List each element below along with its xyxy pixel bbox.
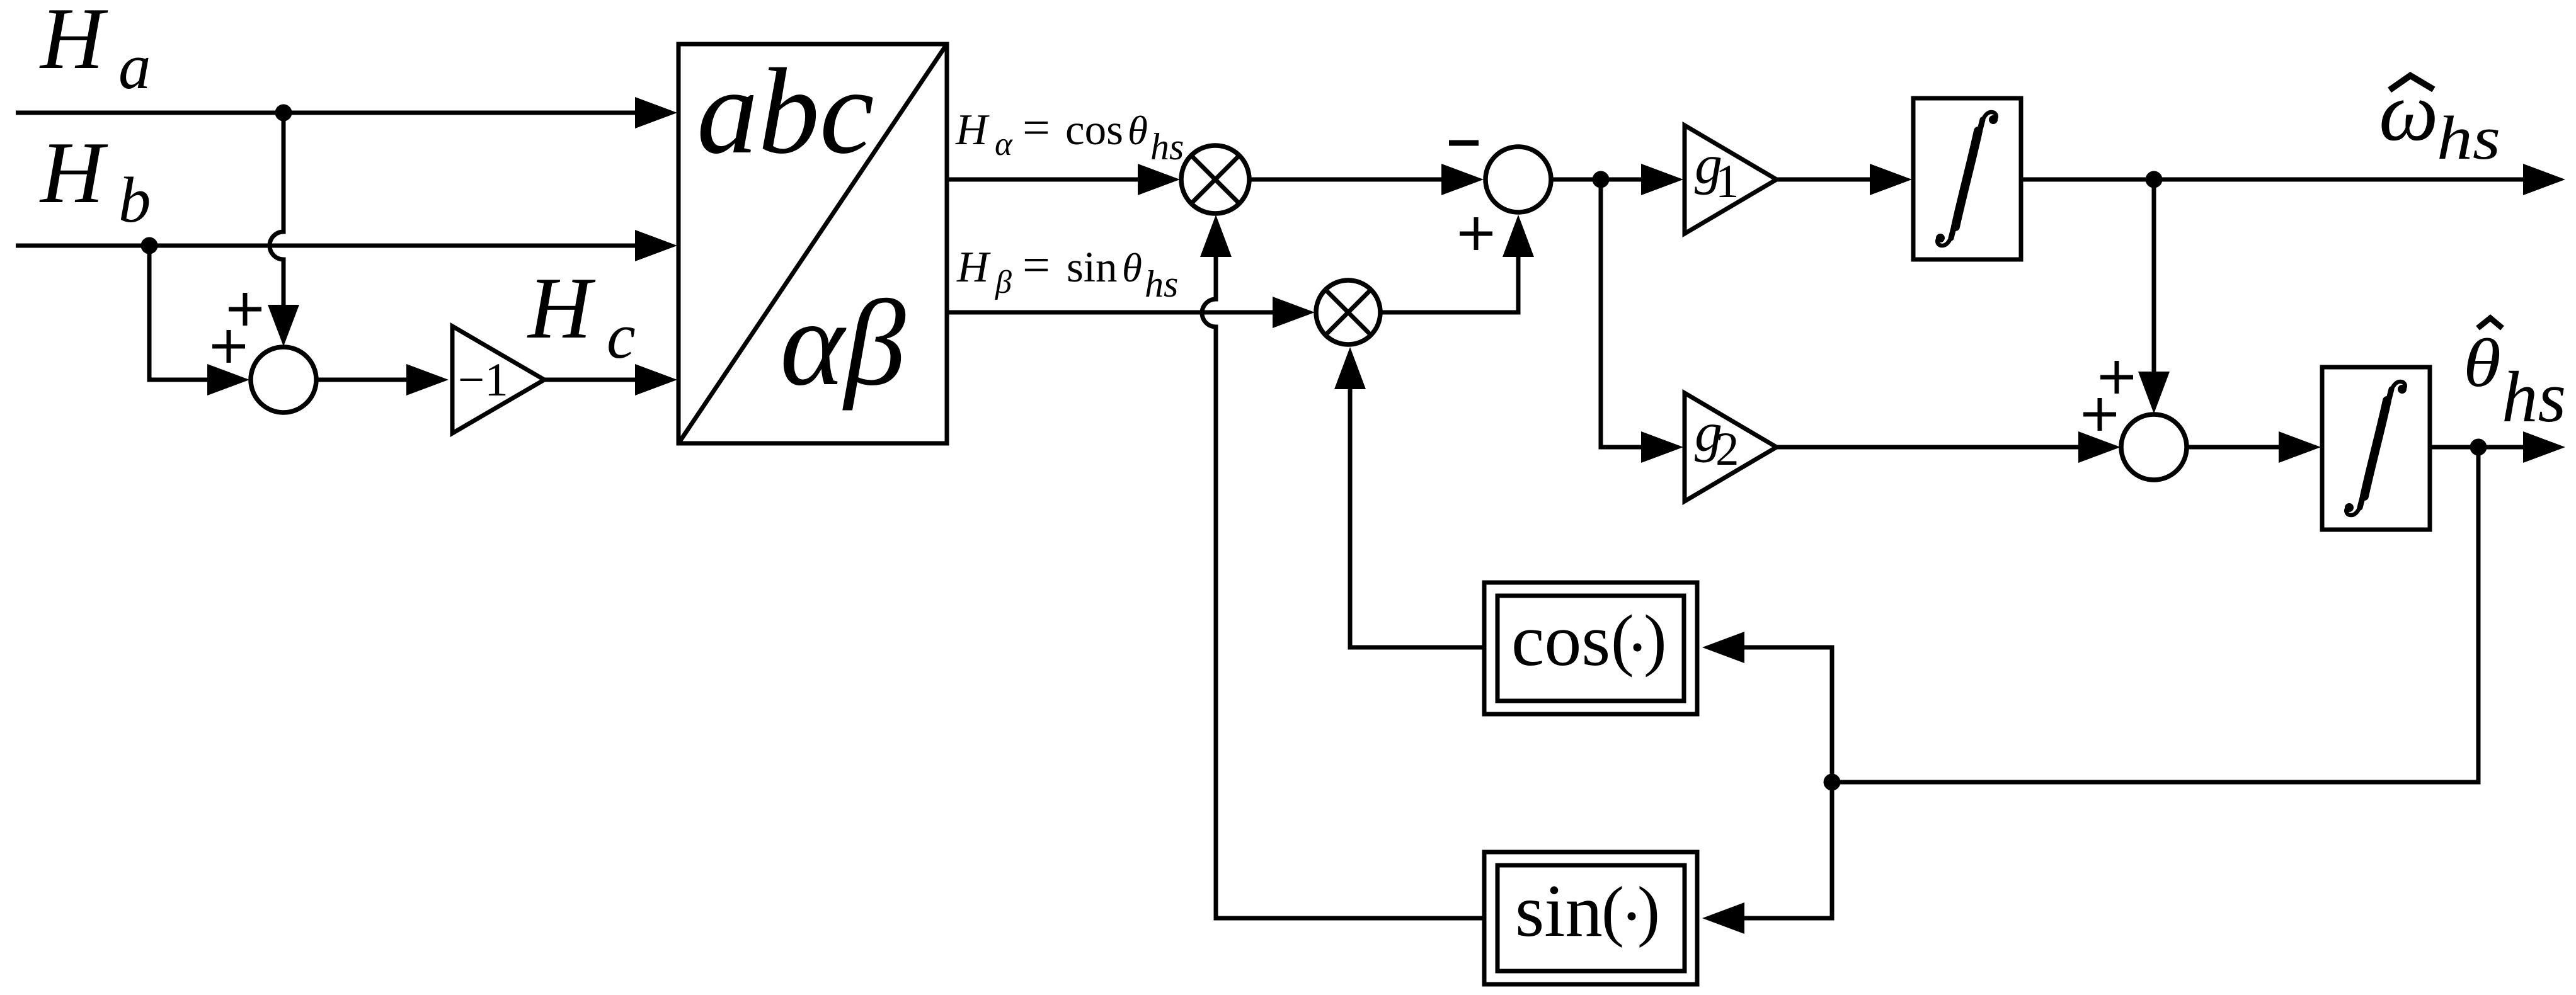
wire arrow into multiplier M2 [1273, 297, 1315, 328]
node H-alpha = cos theta label [955, 100, 1184, 168]
sin block double rectangle [1484, 852, 1697, 984]
wire arrow into gain g1 [1641, 164, 1683, 195]
node junction after subtractor S2 [1593, 171, 1610, 188]
wire arrow into integrator I2 [2279, 431, 2321, 463]
svg-text:cos: cos [1065, 106, 1123, 154]
svg-text:c: c [607, 300, 636, 372]
node plus sign upper at summer S3 [2100, 361, 2133, 394]
wire arrow into abc block input b [635, 230, 677, 261]
node junction on omega line [2146, 171, 2163, 188]
node Ha input label [39, 0, 151, 103]
svg-text:2: 2 [1715, 423, 1739, 475]
wire multiplier M2 output up into subtractor S2 bottom [1382, 256, 1518, 312]
wire feedback vertical split into cos and sin [1744, 647, 1832, 918]
svg-text:b: b [118, 164, 151, 236]
wire feedback from theta junction down and left [1832, 447, 2478, 782]
svg-text:H: H [39, 0, 108, 88]
gain g2 triangle [1685, 393, 1777, 501]
node junction on Ha line [275, 105, 292, 122]
node plus sign at subtractor S2 [1460, 217, 1492, 250]
wire arrow into gain -1 [406, 364, 449, 395]
integrator I2 block [2322, 367, 2430, 530]
svg-text:hs: hs [2502, 357, 2566, 437]
svg-text:a: a [118, 31, 151, 103]
wire arrow into cos block right [1702, 632, 1744, 663]
wire from Hb junction down and right into summer [149, 246, 208, 380]
svg-text:(: ( [1601, 873, 1624, 948]
svg-text:hs: hs [2437, 104, 2500, 173]
wire Hb input line [16, 244, 635, 248]
wire arrow into subtractor S2 bottom [1503, 215, 1534, 257]
svg-text:): ) [1644, 601, 1667, 678]
node Hb input label [39, 124, 151, 236]
svg-text:sin: sin [1515, 869, 1603, 952]
wire arrow into multiplier M1 bottom [1200, 215, 1232, 257]
node junction on feedback vertical [1824, 774, 1841, 791]
wire arrow into multiplier M1 [1138, 164, 1180, 195]
wire H-alpha from block to multiplier M1 [947, 178, 1138, 182]
multiplier M1 circle with cross [1181, 145, 1249, 213]
wire H-beta from block to multiplier M2 [947, 310, 1273, 315]
wire integrator I2 output to theta arrow [2430, 445, 2523, 450]
node theta-hat hs output label [2463, 318, 2566, 437]
svg-text:H: H [955, 106, 990, 154]
wire sin block output left and up into multiplier M1 with hop over H-beta line [1202, 257, 1484, 918]
svg-text:θ: θ [1122, 246, 1142, 291]
wire arrow into abc block input a [635, 97, 677, 128]
wire arrow into summer S3 left [2078, 431, 2121, 463]
wire arrow into gain g2 [1641, 431, 1683, 463]
wire arrow into summer S3 top [2138, 372, 2170, 414]
wire from Ha junction down to summer with hop over Hb line [270, 113, 283, 306]
node Hc label [527, 259, 636, 372]
svg-text:(: ( [1611, 601, 1634, 678]
svg-text:abc: abc [697, 43, 874, 179]
node junction on theta line [2470, 439, 2487, 456]
wire arrow into sin block right [1702, 902, 1744, 934]
svg-text:β: β [995, 264, 1012, 300]
subtractor S2 circle [1485, 147, 1551, 212]
node minus sign at subtractor S2 [1449, 140, 1479, 146]
wire gain g2 to summer S3 [1777, 445, 2078, 450]
node plus sign lower at summer S1 [212, 330, 245, 363]
wire junction down to gain g2 [1601, 179, 1641, 447]
svg-text:θ: θ [1128, 108, 1148, 154]
svg-text:=: = [1022, 237, 1050, 292]
svg-text:αβ: αβ [780, 275, 905, 411]
node H-beta = sin theta label [956, 237, 1178, 305]
wire junction down into summer S3 top [2152, 179, 2156, 372]
summer S1 circle [251, 347, 316, 412]
svg-text:θ: θ [2463, 326, 2501, 402]
wire gain g1 to integrator I1 [1777, 178, 1870, 182]
wire cos block output left and up into multiplier M2 [1350, 389, 1484, 647]
wire output arrow omega [2523, 164, 2565, 195]
wire arrow into integrator I1 [1870, 164, 1912, 195]
cos block double rectangle [1484, 583, 1697, 714]
svg-text:−1: −1 [458, 354, 508, 406]
svg-text:cos: cos [1511, 599, 1610, 681]
abc to alpha-beta transform block U1 [678, 43, 947, 443]
summer S3 circle [2121, 414, 2187, 480]
svg-text:H: H [39, 124, 108, 222]
gain -1 triangle [452, 326, 544, 433]
wire gain -1 to abc block input c [544, 378, 635, 382]
svg-text:sin: sin [1067, 243, 1118, 291]
multiplier M2 circle with cross [1316, 280, 1380, 344]
wire output arrow theta [2523, 431, 2565, 463]
wire arrow into multiplier M2 bottom [1334, 347, 1366, 389]
svg-text:H: H [527, 259, 596, 357]
svg-text:hs: hs [1145, 263, 1178, 305]
wire summer S3 to integrator I2 [2187, 445, 2279, 450]
svg-text:=: = [1022, 100, 1050, 155]
wire multiplier M1 to subtractor S2 [1250, 178, 1441, 182]
wire arrow into abc block input c [635, 364, 677, 395]
wire arrow into summer top [268, 305, 299, 346]
svg-text:): ) [1637, 873, 1660, 948]
gain g1 triangle [1685, 125, 1777, 234]
wire integrator I1 output to omega arrow [2021, 178, 2523, 182]
node plus sign upper at summer S1 [229, 293, 261, 326]
integrator I1 block [1913, 98, 2021, 259]
svg-text:1: 1 [1715, 156, 1739, 208]
svg-text:H: H [956, 243, 991, 292]
node omega-hat hs output label [2379, 65, 2500, 173]
node plus sign lower at summer S3 [2083, 398, 2116, 431]
wire summer S1 to gain -1 [318, 378, 407, 382]
wire arrow into subtractor S2 [1441, 164, 1484, 195]
wire subtractor S2 to gain g1 [1553, 178, 1641, 182]
node junction on Hb line [141, 237, 158, 254]
wire arrow into summer left [207, 364, 249, 395]
svg-text:α: α [995, 126, 1013, 162]
wire Ha input line [16, 111, 635, 115]
svg-text:hs: hs [1150, 126, 1184, 168]
